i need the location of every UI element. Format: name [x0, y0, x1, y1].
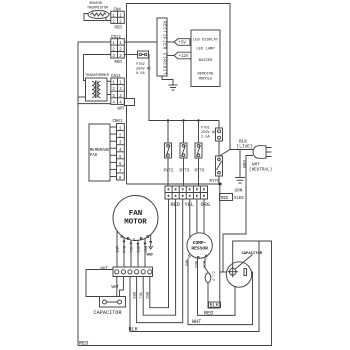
svg-text:YEL: YEL: [185, 202, 194, 208]
svg-text:RED: RED: [193, 261, 197, 269]
svg-text:RED: RED: [204, 311, 213, 317]
svg-text:GRN: GRN: [235, 189, 243, 194]
fan motor wires down to strip: [117, 231, 145, 268]
svg-text:MOTOR: MOTOR: [124, 219, 147, 227]
wire ORG U loop: [137, 199, 183, 323]
svg-text:GND: GND: [147, 254, 153, 258]
fan terminal letters S M L H N: [120, 234, 149, 243]
svg-text:WHT: WHT: [184, 260, 188, 268]
relay RY72: [164, 143, 174, 174]
wire YEL U loop: [143, 199, 175, 315]
svg-text:RED: RED: [144, 292, 148, 300]
jumper box beside CN11: [125, 99, 135, 106]
wire GRN drop to earth: [239, 150, 241, 178]
label BLK boxed on loop: [209, 302, 221, 309]
wire CN11 pin4 to left wire: [78, 103, 111, 105]
svg-text:MEMBRANE: MEMBRANE: [90, 149, 110, 153]
svg-text:S: S: [120, 234, 123, 240]
svg-text:250V AC: 250V AC: [201, 131, 216, 135]
wire RED U loop: [150, 199, 169, 308]
wire RED compressor R loop to capacitor bottom: [198, 258, 236, 315]
wire bus to relay RY73: [183, 121, 185, 144]
svg-text:RECTIFIER CIRCUIT: RECTIFIER CIRCUIT: [162, 21, 167, 75]
LED display / buzzer module box: [191, 30, 220, 87]
wire CN12 pin3 left to transformer: [84, 55, 111, 81]
rectifier circuit U70: [157, 18, 167, 76]
earth ground symbol: [235, 178, 246, 194]
svg-text:RED: RED: [115, 61, 123, 65]
svg-text:RED: RED: [142, 246, 146, 254]
enclosure wire loop right: [78, 241, 272, 346]
relay RY76: [195, 143, 205, 174]
svg-text:WHT: WHT: [112, 286, 120, 290]
svg-text:+5V: +5V: [179, 42, 187, 46]
svg-text:0.5A: 0.5A: [136, 72, 145, 76]
wire WHT compressor S loop to capacitor right: [188, 258, 253, 325]
wire live diagonal to plug line: [220, 150, 231, 157]
wire WHT neutral from plug down: [223, 156, 253, 273]
wires relays down to terminal block: [167, 158, 169, 186]
wire BLK fan loop: [130, 241, 259, 332]
wires membrane pad to CN01: [110, 127, 117, 177]
svg-text:BLK: BLK: [210, 303, 220, 309]
fan gnd stub with arrow: [147, 235, 153, 258]
svg-text:RESSOR: RESSOR: [191, 246, 208, 252]
wire transformer to CN11 pin1: [107, 80, 111, 82]
fuse F701: [216, 121, 223, 142]
svg-text:WHT: WHT: [192, 319, 201, 325]
svg-text:BLK: BLK: [129, 327, 139, 333]
svg-text:F701: F701: [201, 127, 210, 131]
svg-text:LED DISPLAY: LED DISPLAY: [193, 39, 219, 43]
svg-text:YEL: YEL: [137, 292, 141, 300]
compressor: [187, 233, 212, 261]
transformer T70: [85, 74, 110, 101]
wire bus to relay RY72: [167, 121, 169, 144]
svg-text:PAD: PAD: [90, 154, 98, 158]
wire transformer bottom-left to red wire: [78, 96, 86, 98]
svg-text:BLU: BLU: [121, 246, 125, 254]
wire strip pin2 down to capacitor: [120, 277, 124, 297]
connector CN01: [113, 120, 125, 181]
membrane pad: [89, 124, 110, 181]
svg-text:BUZZER: BUZZER: [199, 59, 213, 63]
relay bus junction dots: [167, 119, 169, 121]
svg-text:SENSOR: SENSOR: [89, 2, 103, 6]
svg-text:ORG: ORG: [201, 202, 210, 208]
svg-text:RED: RED: [115, 27, 123, 31]
wire strip pin1 down to capacitor: [116, 277, 118, 297]
wire WHT from strip to fan capacitor: [86, 270, 113, 297]
fuse F702: [124, 51, 148, 58]
svg-text:BLK: BLK: [201, 261, 205, 269]
wire long left RED vertical: [77, 42, 79, 346]
svg-text:REMOCON: REMOCON: [198, 73, 214, 77]
relay RY75: [210, 156, 223, 184]
overload protector OLP: [205, 258, 220, 308]
compressor wire labels vertical: [184, 260, 206, 269]
svg-text:WHT: WHT: [114, 246, 118, 254]
wire transformer to CN11 pin3: [107, 94, 111, 96]
connector CN4: [111, 9, 125, 31]
svg-text:YEL: YEL: [128, 246, 132, 254]
svg-text:MODULE: MODULE: [199, 78, 213, 82]
svg-text:[LIVE]: [LIVE]: [237, 144, 253, 150]
wire RY75 to PCB edge junction: [218, 176, 220, 184]
svg-text:F702: F702: [136, 63, 145, 67]
svg-text:M: M: [127, 236, 130, 242]
wire F701 to RY75: [218, 141, 220, 156]
connector CN12: [111, 36, 125, 65]
wire capacitor left terminal from neutral: [220, 271, 229, 273]
svg-text:TRANSFORMER: TRANSFORMER: [85, 74, 110, 78]
node +5V: [167, 39, 190, 46]
fan capacitor C1: [94, 297, 126, 317]
svg-text:L: L: [133, 237, 136, 243]
svg-text:COMP-: COMP-: [193, 240, 207, 246]
wire red sleeve from junction down: [219, 184, 221, 308]
svg-text:2.5A: 2.5A: [201, 136, 210, 140]
wire CN12 pin1 right to rectifier: [124, 41, 157, 43]
relay RY73: [180, 143, 190, 174]
svg-text:RY75: RY75: [210, 180, 220, 184]
label RED SLEE(VE) boxed: [220, 194, 245, 202]
fan terminal arrows: [123, 241, 153, 247]
fan connector strip: [101, 267, 153, 277]
svg-text:SLEE: SLEE: [234, 197, 244, 201]
sensor thermistor TH1: [84, 11, 111, 21]
svg-text:CAPACITOR: CAPACITOR: [94, 310, 122, 316]
wire CN12 pin1 left to long red wire: [78, 41, 111, 43]
fan wire color labels lower vertical: [131, 292, 148, 300]
svg-text:WHT: WHT: [118, 108, 126, 112]
terminal block under relays: [165, 186, 208, 199]
fan motor M1: [113, 196, 158, 241]
svg-text:FAN: FAN: [129, 210, 143, 218]
svg-text:LED LAMP: LED LAMP: [196, 48, 215, 52]
svg-text:O.L.P: O.L.P: [212, 272, 216, 282]
run capacitor C2: [226, 252, 262, 287]
svg-text:RED: RED: [221, 197, 229, 201]
svg-text:+12V: +12V: [179, 55, 189, 59]
ground below rectifier: [162, 76, 178, 90]
connector CN11: [111, 75, 126, 112]
wires terminal block down to compressor: [189, 199, 191, 237]
svg-text:M: M: [140, 236, 143, 242]
wire bus to relay RY76: [198, 121, 200, 144]
wire F702 down to relay bus: [149, 55, 220, 121]
junction node on PCB bottom edge: [218, 183, 221, 186]
PCB main board outline: [127, 4, 231, 185]
svg-text:GRN: GRN: [241, 160, 246, 168]
svg-text:N: N: [146, 234, 149, 240]
fan wire color labels vertical: [114, 246, 146, 254]
power plug: [253, 146, 272, 159]
svg-text:RY73: RY73: [180, 170, 190, 174]
svg-text:RY72: RY72: [164, 170, 174, 174]
svg-text:RY76: RY76: [195, 170, 205, 174]
svg-text:RED: RED: [79, 341, 88, 347]
node +12V: [167, 52, 191, 59]
wire BLK live to plug: [230, 149, 253, 151]
svg-text:ORG: ORG: [135, 246, 139, 254]
svg-text:ORG: ORG: [131, 292, 135, 300]
svg-text:(NEUTRAL): (NEUTRAL): [249, 168, 272, 173]
svg-text:THERMISTOR: THERMISTOR: [87, 7, 109, 11]
